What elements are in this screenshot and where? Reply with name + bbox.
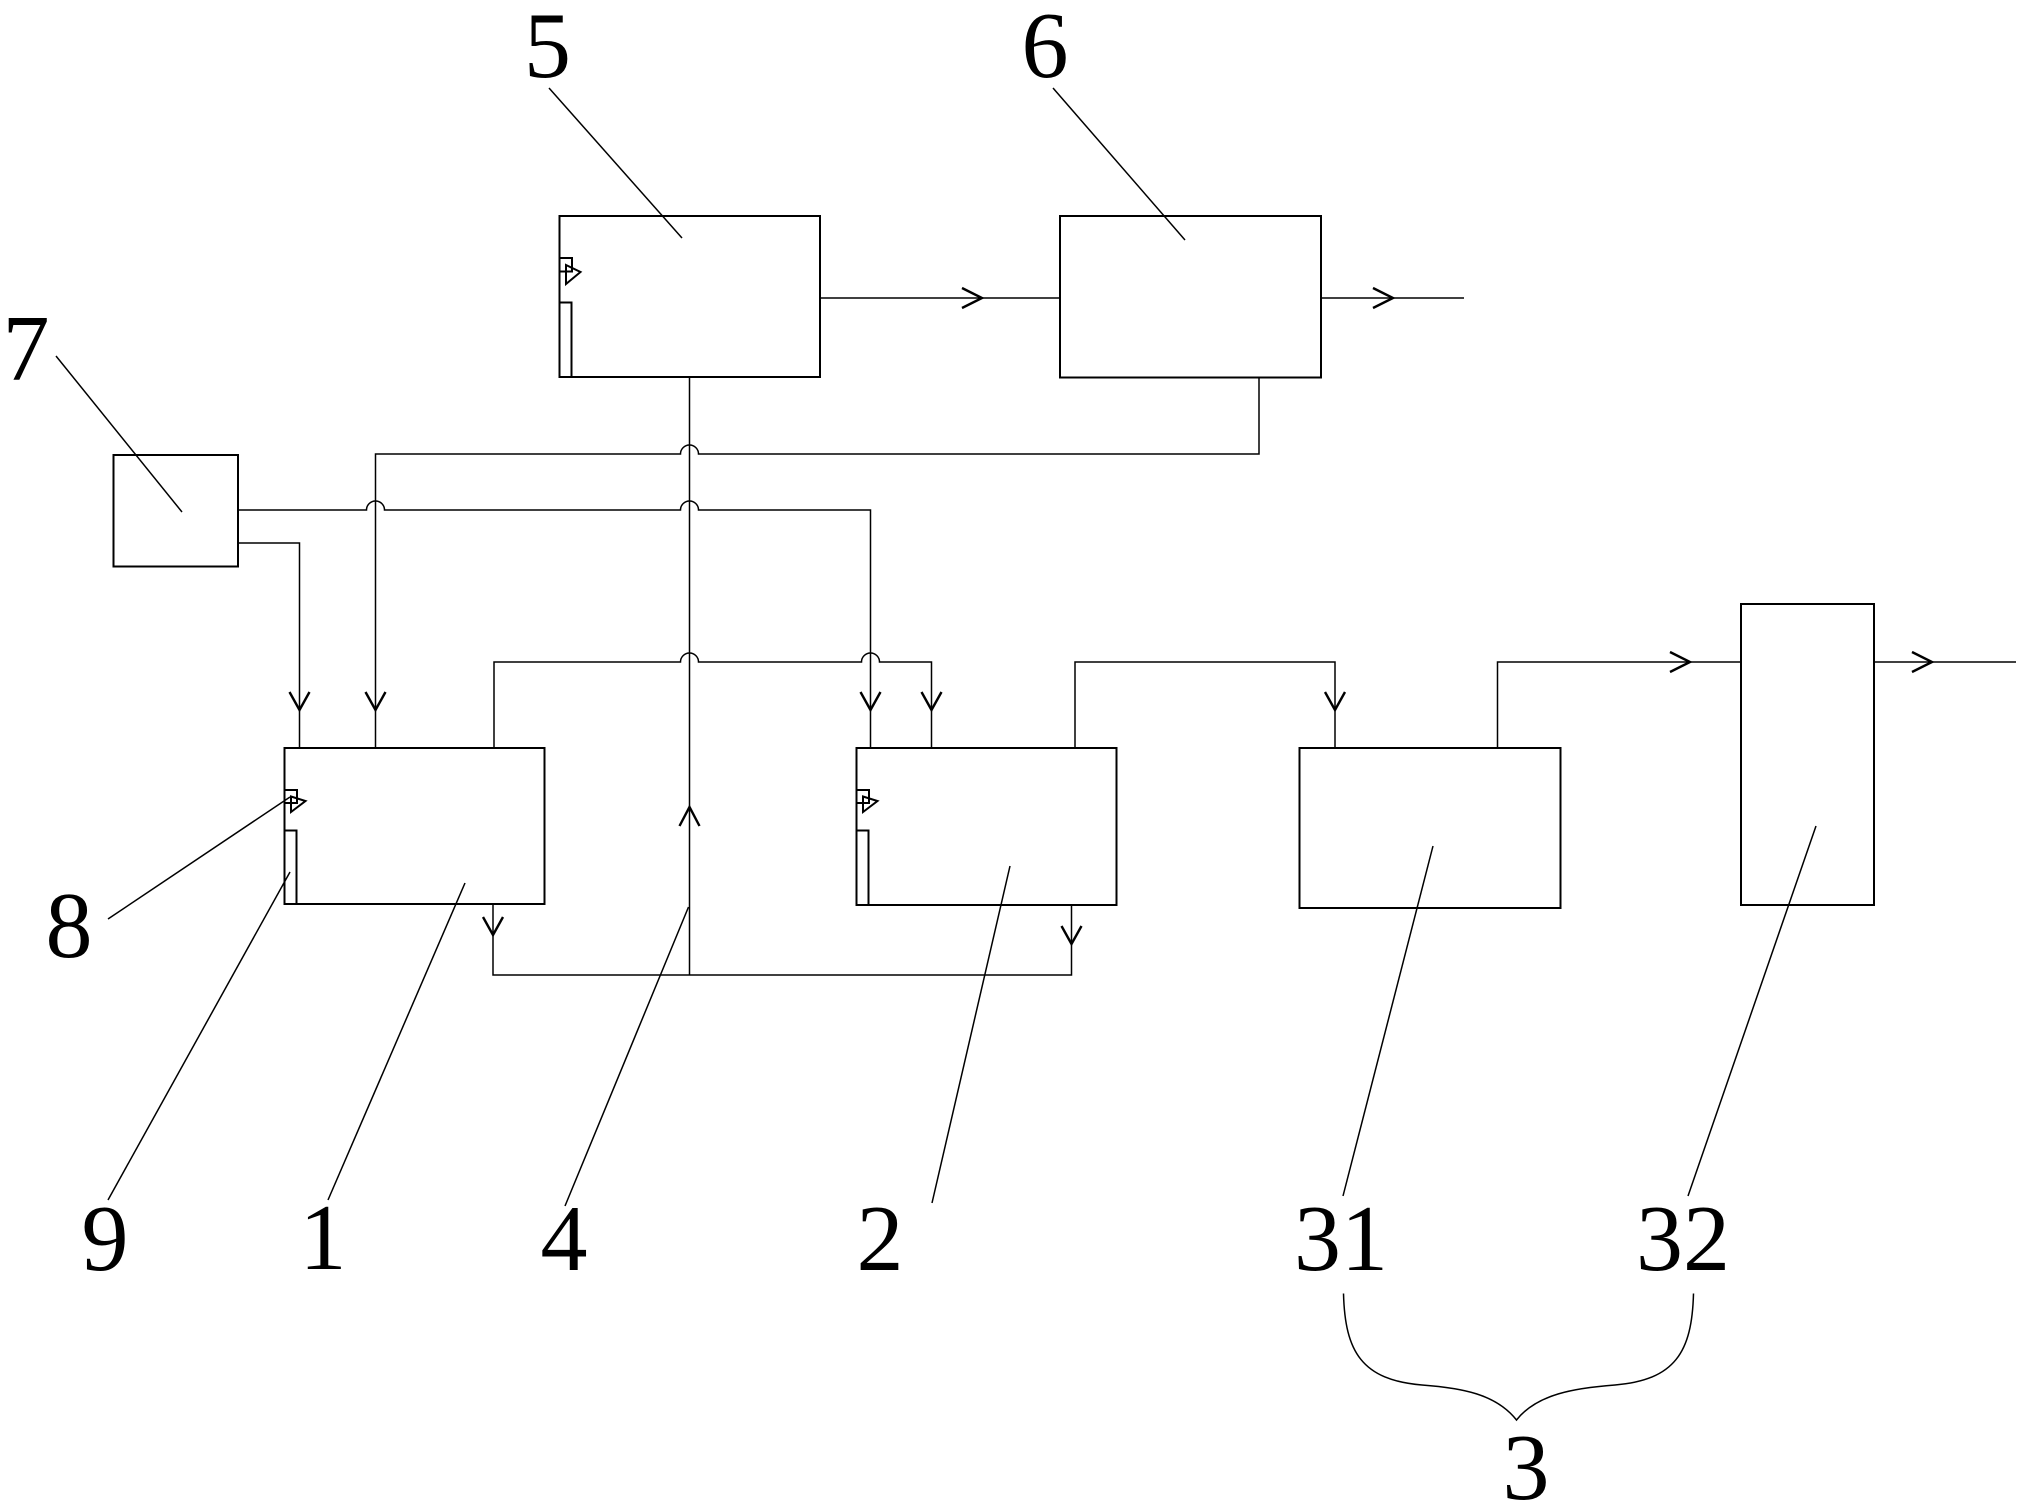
- arrow on box32 output: [1912, 652, 1932, 672]
- box 7: [114, 455, 239, 567]
- leader line 9: [108, 872, 290, 1200]
- svg-text:31: 31: [1294, 1187, 1388, 1291]
- inlet flag of box 2: [857, 790, 878, 812]
- svg-text:1: 1: [300, 1186, 347, 1290]
- arrow into box32: [1670, 652, 1690, 672]
- box 31: [1300, 748, 1561, 908]
- leader line 6: [1053, 88, 1185, 240]
- heater bar of box 1: [285, 831, 297, 904]
- leader line 2: [932, 866, 1010, 1203]
- svg-text:5: 5: [524, 0, 571, 98]
- svg-text:3: 3: [1503, 1416, 1550, 1502]
- svg-text:4: 4: [541, 1187, 588, 1291]
- wire box6 bottom to box1 top (y454 line): [376, 378, 1260, 749]
- wire box7 lower output to box1 top (y543 line): [238, 543, 300, 748]
- box 5: [560, 216, 821, 377]
- bottom collection wire y975: [493, 904, 1072, 975]
- wire box7 upper output to box2 top (y510 line): [238, 501, 871, 748]
- leader line 31: [1343, 846, 1433, 1196]
- arrow into box2 at x870: [861, 692, 881, 710]
- svg-text:9: 9: [82, 1187, 129, 1291]
- wire y662 left segment (box1 top to box2 top): [494, 653, 932, 748]
- box 6: [1060, 216, 1321, 378]
- down arrow below box1: [483, 917, 503, 935]
- heater bar of box 2: [857, 831, 869, 905]
- arrow into box1 at x299: [290, 692, 310, 710]
- box 2: [857, 748, 1117, 905]
- inlet flag of box 1: [285, 790, 306, 812]
- arrow into box1 at x375: [366, 692, 386, 710]
- svg-text:8: 8: [46, 874, 93, 978]
- leader line 1: [328, 883, 465, 1200]
- reflux wire 4 (vertical x689): [689, 377, 691, 975]
- wire box2 top to box31 top (y662 right segment): [1075, 662, 1335, 748]
- wire box6 output: [1321, 297, 1464, 299]
- up arrow on reflux wire 4: [680, 807, 700, 826]
- arrow on box6 output: [1373, 288, 1393, 308]
- svg-text:7: 7: [3, 297, 50, 401]
- inlet flag of box 5: [560, 258, 581, 284]
- wire box5 to box6: [820, 297, 1060, 299]
- box 32: [1741, 604, 1874, 905]
- leader line 4: [565, 907, 689, 1206]
- leader line 32: [1688, 826, 1816, 1196]
- svg-text:6: 6: [1022, 0, 1069, 98]
- brace for 3: [1344, 1294, 1694, 1421]
- leader line 5: [549, 88, 682, 238]
- svg-text:32: 32: [1636, 1187, 1730, 1291]
- arrow on wire box5 to box6: [962, 288, 982, 308]
- heater bar of box 5: [560, 303, 572, 377]
- down arrow below box2: [1062, 926, 1082, 944]
- svg-text:2: 2: [857, 1187, 904, 1291]
- box 1: [285, 748, 545, 904]
- wire box31 top to box32: [1498, 662, 1742, 748]
- wire box32 output: [1874, 661, 2016, 663]
- arrow into box2 at x931: [922, 692, 942, 710]
- leader line 7: [56, 356, 182, 512]
- leader line 8: [108, 797, 290, 919]
- arrow into box31: [1325, 692, 1345, 710]
